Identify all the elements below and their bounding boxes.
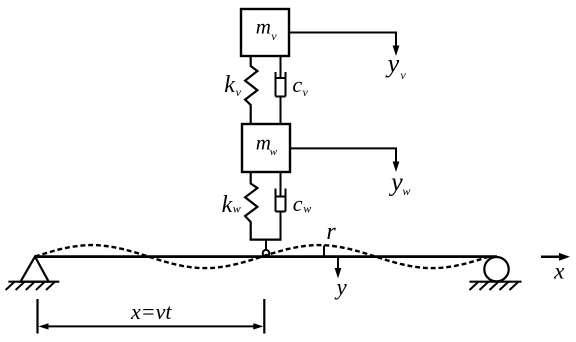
svg-text:k: k (222, 192, 233, 218)
svg-text:v: v (236, 85, 242, 99)
svg-text:y: y (385, 49, 400, 78)
svg-text:w: w (402, 184, 410, 198)
svg-text:x: x (553, 258, 565, 283)
svg-text:k: k (224, 72, 235, 98)
svg-text:m: m (256, 15, 271, 39)
svg-text:v: v (400, 68, 406, 82)
svg-text:v: v (271, 29, 277, 43)
svg-text:v: v (303, 85, 309, 99)
svg-text:m: m (256, 130, 271, 154)
svg-text:y: y (388, 168, 403, 197)
svg-text:x=vt: x=vt (130, 299, 172, 324)
svg-text:r: r (326, 219, 336, 245)
svg-text:c: c (292, 72, 302, 97)
svg-text:y: y (335, 274, 348, 299)
svg-text:c: c (293, 191, 303, 216)
svg-text:w: w (303, 201, 311, 215)
svg-text:w: w (233, 202, 241, 216)
svg-text:w: w (270, 146, 278, 158)
